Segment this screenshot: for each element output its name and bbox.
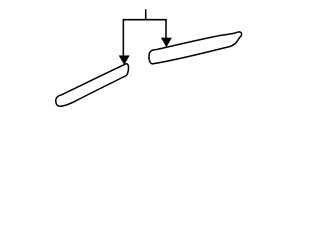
left molding strip (lower left elongated part): [56, 64, 129, 107]
left arrowhead (pointer to left molding): [119, 56, 129, 65]
wire: bracket horizontal bar: [123, 19, 167, 21]
wire: top center stub: [145, 9, 147, 20]
right molding strip (upper right elongated part): [149, 32, 242, 64]
right arrowhead (pointer to right molding): [161, 38, 171, 47]
wire: left arrow stem: [122, 19, 124, 56]
wire: right arrow stem: [165, 19, 167, 39]
